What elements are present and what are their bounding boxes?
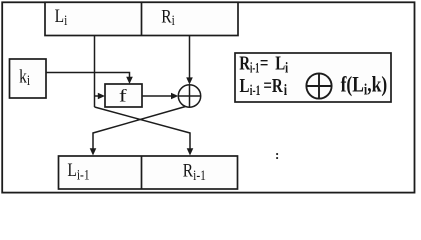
svg-text::: : [275, 147, 279, 162]
svg-text:Li-1=Ri: Li-1=Ri [240, 75, 288, 99]
svg-text:f: f [119, 85, 127, 106]
svg-text:f(Li,k): f(Li,k) [341, 72, 388, 97]
svg-text:Ri-1=Li: Ri-1=Li [239, 53, 288, 76]
